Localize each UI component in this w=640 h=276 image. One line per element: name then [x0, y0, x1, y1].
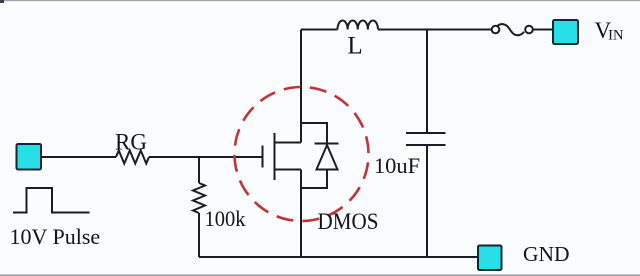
- inductor L: [338, 21, 378, 30]
- svg-text:10uF: 10uF: [374, 153, 420, 178]
- terminal GND square: [478, 246, 502, 271]
- top edge artifact line: [0, 0, 640, 1]
- fuse left circle: [492, 26, 500, 34]
- resistor RG: [116, 151, 149, 164]
- terminal VIN square: [553, 20, 578, 44]
- resistor 100k: [193, 183, 205, 213]
- svg-text:L: L: [347, 33, 362, 60]
- wire: to VIN terminal: [533, 29, 554, 31]
- wire: top rail left section: [301, 29, 338, 31]
- wire: 100k to bottom rail: [198, 213, 200, 257]
- wire: source vertical down to bottom rail: [300, 170, 302, 258]
- fuse right circle: [525, 26, 533, 34]
- bottom edge artifact line: [0, 274, 640, 276]
- wire: drain branch to body diode: [301, 123, 327, 144]
- svg-text:GND: GND: [523, 242, 570, 266]
- wire: top rail middle section: [378, 29, 492, 31]
- svg-text:DMOS: DMOS: [318, 209, 379, 234]
- wire: capacitor bottom lead: [426, 145, 428, 257]
- wire: source branch to body diode: [301, 170, 327, 189]
- transistor DMOS channel bar: [274, 133, 276, 180]
- transistor DMOS gate bar: [262, 146, 264, 168]
- wire: bottom ground rail: [199, 256, 478, 258]
- diode triangle: [317, 145, 338, 170]
- wire: drain vertical up to top rail: [300, 30, 302, 143]
- diode cathode bar: [315, 143, 339, 145]
- svg-text:10V Pulse: 10V Pulse: [10, 224, 101, 249]
- svg-text:RG: RG: [115, 130, 147, 155]
- wire: source stub: [275, 169, 302, 171]
- capacitor C1 top plate: [406, 132, 446, 134]
- capacitor C1 bottom plate: [406, 144, 446, 146]
- terminal input square: [17, 144, 42, 170]
- red dashed highlight circle: [235, 87, 369, 221]
- wire: drain stub: [275, 142, 302, 144]
- wire: gate wire from input terminal to RG: [42, 156, 117, 158]
- wire: node A down to 100k: [198, 157, 200, 183]
- wire: capacitor top lead: [426, 30, 428, 134]
- wire: RG to gate (through node A junction): [149, 156, 262, 158]
- svg-text:100k: 100k: [205, 206, 246, 231]
- pulse source waveform symbol: [13, 188, 90, 213]
- fuse wave: [497, 24, 524, 35]
